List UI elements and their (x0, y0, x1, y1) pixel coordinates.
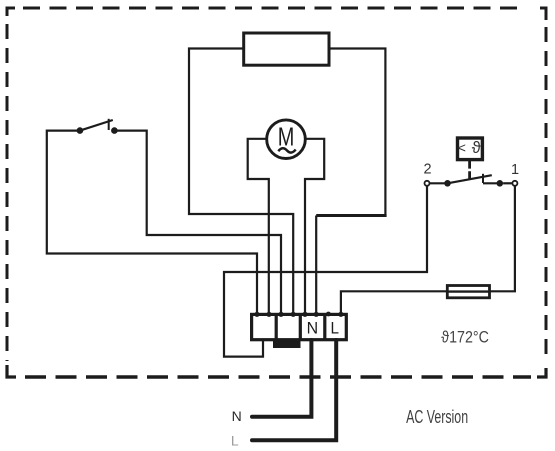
dashed enclosure border right (545, 27, 548, 363)
dashed enclosure border corner bottom-right (537, 368, 546, 377)
dashed enclosure border corner top-right (540, 8, 546, 20)
thermostat U1 temperature sensor box (458, 138, 483, 160)
dashed enclosure border left (6, 24, 9, 361)
label N supply (232, 408, 242, 424)
wire: motor right lead to terminal cell 3 (305, 139, 324, 313)
terminal block entry dots (254, 312, 343, 317)
svg-text:N: N (307, 320, 319, 338)
wire: fuse to terminal block cell 4 (L) (341, 291, 447, 313)
dashed enclosure border corner top-left (7, 8, 15, 16)
motor M1 (267, 120, 306, 159)
terminal block mounting tab (273, 341, 301, 348)
wire: switch left leg down to terminal cell 1 (47, 131, 257, 313)
switch S1 power switch (77, 119, 118, 134)
label terminal L (331, 320, 340, 338)
dashed enclosure border corner bottom-left (7, 365, 16, 377)
wire: heater right lead (329, 49, 385, 215)
label terminal 2 (424, 161, 432, 177)
wire: thermostat terminal 1 down to fuse (490, 186, 515, 291)
dashed enclosure border top (23, 7, 523, 10)
label L supply (231, 433, 239, 449)
svg-text:M: M (278, 122, 295, 152)
fuse F1 thermal fuse (447, 286, 489, 298)
wire: switch right leg down to terminal cell 2 (114, 131, 281, 313)
svg-text:2: 2 (424, 161, 432, 177)
label AC Version (406, 407, 468, 427)
terminal block X1 (252, 313, 347, 341)
label terminal 1 (511, 162, 519, 178)
wire: heater right loop down to terminal cell 3 (315, 216, 317, 314)
svg-text:1: 1 (511, 162, 519, 178)
svg-text:ϑ: ϑ (472, 139, 481, 157)
wire: heater right loop horizontal (thick) (316, 214, 386, 217)
label fuse temperature (441, 327, 489, 346)
svg-text:L: L (231, 433, 239, 449)
wire: motor left lead to terminal cell 1 (248, 139, 269, 313)
svg-text:<: < (458, 140, 466, 156)
wire: heater left loop down to terminal cell 2 (189, 49, 293, 314)
wire: line supply line (252, 340, 336, 440)
thermostat switch contacts (425, 174, 518, 187)
resistor R1 heater element (244, 33, 329, 65)
thermostat actuator stem (dashed) (468, 161, 471, 180)
label terminal N (307, 320, 319, 338)
dashed enclosure border bottom (25, 375, 531, 378)
svg-text:N: N (232, 408, 242, 424)
svg-text:L: L (331, 320, 340, 338)
svg-text:ϑ172°C: ϑ172°C (441, 327, 489, 346)
wire: neutral supply line (252, 340, 311, 417)
svg-text:AC Version: AC Version (406, 407, 468, 427)
wire: thermostat terminal 2 to terminal block cell 1 bottom (224, 186, 427, 357)
